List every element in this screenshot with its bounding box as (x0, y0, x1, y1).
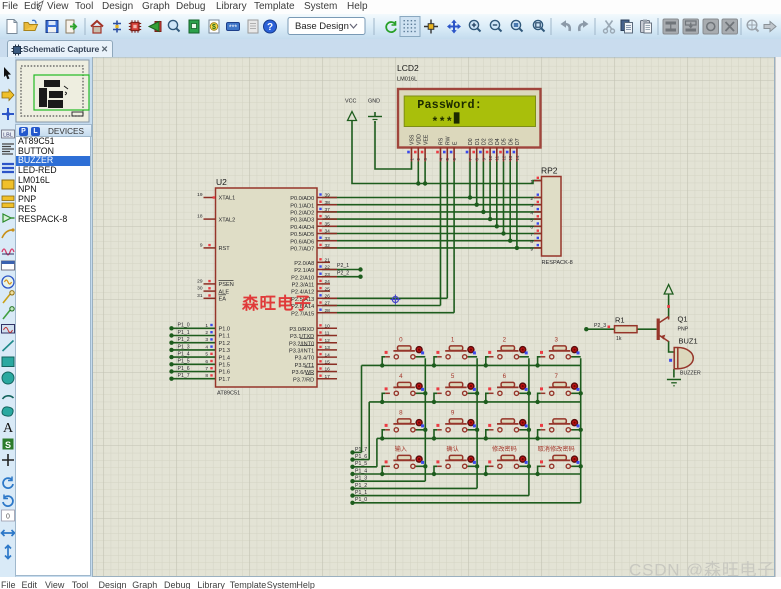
svg-text:GND: GND (368, 99, 380, 105)
svg-text:P0.2/AD2: P0.2/AD2 (290, 211, 314, 217)
svg-text:P3.0/RXD: P3.0/RXD (289, 327, 314, 333)
svg-text:Q1: Q1 (678, 315, 688, 324)
svg-text:A: A (3, 421, 14, 436)
svg-text:1k: 1k (616, 336, 622, 342)
svg-text:D5: D5 (502, 138, 508, 145)
svg-text:15: 15 (325, 360, 331, 366)
svg-text:7: 7 (205, 366, 208, 372)
svg-text:30: 30 (197, 286, 203, 292)
svg-text:Base Design: Base Design (295, 21, 349, 32)
svg-text:39: 39 (325, 193, 331, 199)
svg-text:P1_0: P1_0 (355, 497, 367, 503)
svg-text:P1_3: P1_3 (355, 476, 367, 482)
svg-text:LM016L: LM016L (397, 77, 417, 83)
svg-text:3: 3 (205, 337, 208, 343)
svg-text:3: 3 (554, 337, 558, 344)
svg-text:14: 14 (515, 155, 520, 160)
svg-text:4: 4 (205, 344, 208, 350)
svg-text:RW: RW (446, 136, 452, 145)
svg-text:E: E (452, 141, 458, 145)
svg-text:P0.3/AD3: P0.3/AD3 (290, 218, 314, 224)
svg-text:D0: D0 (468, 138, 474, 145)
svg-text:BUZZER: BUZZER (680, 371, 701, 377)
svg-text:10: 10 (488, 155, 493, 160)
svg-text:P1.2: P1.2 (219, 341, 231, 347)
svg-text:VDD: VDD (417, 134, 423, 145)
svg-text:VEE: VEE (423, 134, 429, 145)
svg-text:取消修改密码: 取消修改密码 (538, 445, 575, 453)
svg-text:12: 12 (325, 338, 331, 344)
svg-text:23: 23 (325, 272, 331, 278)
svg-text:P1_2: P1_2 (178, 337, 190, 343)
svg-text:PNP: PNP (678, 327, 689, 333)
svg-text:22: 22 (325, 265, 331, 271)
svg-text:18: 18 (197, 214, 203, 220)
svg-text:36: 36 (325, 214, 331, 220)
svg-text:EA: EA (219, 297, 227, 303)
svg-text:PSEN: PSEN (219, 282, 234, 288)
svg-text:26: 26 (325, 294, 331, 300)
svg-text:8: 8 (205, 373, 208, 379)
svg-text:9: 9 (451, 410, 455, 417)
svg-text:P2_1: P2_1 (337, 263, 349, 269)
svg-text:1: 1 (451, 337, 455, 344)
svg-text:P1.5: P1.5 (219, 363, 231, 369)
svg-text:28: 28 (325, 308, 331, 314)
svg-text:P0.0/AD0: P0.0/AD0 (290, 196, 314, 202)
svg-text:25: 25 (325, 286, 331, 292)
svg-text:5: 5 (530, 218, 533, 224)
svg-text:6: 6 (503, 373, 507, 380)
svg-text:P1.1: P1.1 (219, 334, 231, 340)
svg-text:P0.4/AD4: P0.4/AD4 (290, 225, 314, 231)
svg-text:P1_6: P1_6 (178, 366, 190, 372)
svg-text:2: 2 (530, 196, 533, 202)
svg-text:8: 8 (530, 239, 533, 245)
svg-text:D1: D1 (475, 138, 481, 145)
svg-text:P3.3/INT1: P3.3/INT1 (289, 349, 314, 355)
svg-text:11: 11 (325, 331, 330, 337)
svg-text:LBL: LBL (3, 133, 13, 139)
svg-text:D2: D2 (482, 138, 488, 145)
svg-text:31: 31 (197, 293, 203, 299)
svg-text:D6: D6 (508, 138, 514, 145)
svg-text:R1: R1 (615, 316, 625, 325)
svg-text:P3.4/T0: P3.4/T0 (295, 356, 315, 362)
svg-text:P1_7: P1_7 (355, 447, 367, 453)
svg-text:4: 4 (530, 210, 533, 216)
svg-text:35: 35 (325, 222, 331, 228)
svg-text:13: 13 (325, 345, 331, 351)
svg-text:P1_3: P1_3 (178, 344, 190, 350)
svg-text:32: 32 (325, 243, 331, 249)
svg-text:12: 12 (501, 155, 506, 160)
svg-text:D3: D3 (488, 138, 494, 145)
svg-text:24: 24 (325, 279, 331, 285)
svg-text:***: *** (431, 116, 453, 130)
svg-text:P2_2: P2_2 (337, 271, 349, 277)
svg-text:7: 7 (530, 232, 533, 238)
svg-text:P0.7/AD7: P0.7/AD7 (290, 247, 314, 253)
svg-text:P1_5: P1_5 (178, 359, 190, 365)
svg-text:LCD2: LCD2 (397, 63, 419, 73)
svg-text:7: 7 (554, 373, 558, 380)
svg-text:33: 33 (325, 236, 331, 242)
svg-text:9: 9 (200, 242, 203, 248)
svg-text:VSS: VSS (410, 134, 416, 145)
svg-text:5: 5 (205, 352, 208, 358)
svg-text:S: S (5, 440, 11, 450)
svg-text:P1_0: P1_0 (178, 323, 190, 329)
svg-text:P1_6: P1_6 (355, 454, 367, 460)
svg-text:3: 3 (530, 203, 533, 209)
svg-text:10: 10 (325, 324, 331, 330)
svg-text:P1_1: P1_1 (355, 490, 367, 496)
svg-text:2: 2 (205, 330, 208, 336)
svg-text:***: *** (229, 24, 237, 31)
svg-text:6: 6 (530, 225, 533, 231)
svg-text:2: 2 (503, 337, 507, 344)
svg-text:5: 5 (451, 373, 455, 380)
svg-text:P0.1/AD1: P0.1/AD1 (290, 203, 314, 209)
svg-text:9: 9 (530, 246, 533, 252)
svg-text:RESPACK-8: RESPACK-8 (542, 260, 573, 266)
svg-text:森旺电子: 森旺电子 (242, 293, 312, 313)
svg-text:AT89C51: AT89C51 (217, 391, 240, 397)
svg-text:P2.1/A9: P2.1/A9 (294, 268, 314, 274)
svg-text:0: 0 (6, 514, 10, 521)
svg-text:1: 1 (205, 323, 208, 329)
svg-text:P1.6: P1.6 (219, 370, 231, 376)
svg-text:P1.4: P1.4 (219, 355, 231, 361)
svg-text:P1_4: P1_4 (178, 352, 190, 358)
svg-text:P2_3: P2_3 (594, 323, 606, 329)
svg-text:P1.3: P1.3 (219, 348, 231, 354)
svg-text:D4: D4 (495, 138, 501, 145)
svg-text:34: 34 (325, 229, 331, 235)
svg-text:P3.6/WR: P3.6/WR (292, 370, 314, 376)
svg-text:37: 37 (325, 207, 331, 213)
svg-text:P3.1/TXD: P3.1/TXD (290, 334, 314, 340)
svg-text:PassWord:: PassWord: (417, 98, 482, 112)
svg-text:4: 4 (399, 373, 403, 380)
svg-text:8: 8 (399, 410, 403, 417)
svg-text:P0.6/AD6: P0.6/AD6 (290, 239, 314, 245)
svg-text:38: 38 (325, 200, 331, 206)
svg-text:ALE: ALE (219, 289, 230, 295)
svg-text:P1.7: P1.7 (219, 377, 231, 383)
svg-text:确认: 确认 (446, 445, 458, 453)
svg-text:CSDN @森旺电子: CSDN @森旺电子 (629, 561, 775, 578)
svg-text:P1_7: P1_7 (178, 373, 190, 379)
svg-text:27: 27 (325, 301, 331, 307)
svg-text:P2.3/A11: P2.3/A11 (292, 283, 315, 289)
svg-text:16: 16 (325, 367, 331, 373)
svg-text:P3.7/RD: P3.7/RD (293, 377, 314, 383)
svg-text:D7: D7 (515, 138, 521, 145)
svg-text:P1.0: P1.0 (219, 327, 231, 333)
svg-text:$: $ (212, 24, 216, 31)
svg-text:13: 13 (508, 155, 513, 160)
svg-text:14: 14 (325, 352, 331, 358)
svg-text:P3.5/T1: P3.5/T1 (295, 363, 315, 369)
svg-text:P0.5/AD5: P0.5/AD5 (290, 232, 314, 238)
svg-text:0: 0 (399, 337, 403, 344)
svg-text:11: 11 (495, 155, 500, 160)
svg-text:19: 19 (197, 192, 203, 198)
svg-text:RS: RS (439, 137, 445, 145)
svg-text:1: 1 (530, 179, 533, 185)
svg-text:P1_1: P1_1 (178, 330, 190, 336)
svg-text:P2.0/A8: P2.0/A8 (294, 261, 314, 267)
svg-text:?: ? (267, 22, 273, 33)
svg-text:RP2: RP2 (541, 166, 558, 176)
svg-text:P1_4: P1_4 (355, 468, 367, 474)
svg-text:P1_2: P1_2 (355, 483, 367, 489)
svg-text:P1_5: P1_5 (355, 461, 367, 467)
svg-text:XTAL1: XTAL1 (219, 196, 236, 202)
svg-text:XTAL2: XTAL2 (219, 217, 236, 223)
svg-text:P3.2/INT0: P3.2/INT0 (289, 341, 314, 347)
svg-text:P2.2/A10: P2.2/A10 (291, 275, 314, 281)
svg-text:BUZ1: BUZ1 (679, 337, 698, 346)
svg-text:RST: RST (219, 246, 231, 252)
svg-text:VCC: VCC (345, 99, 356, 105)
svg-text:17: 17 (325, 374, 331, 380)
svg-text:U2: U2 (216, 177, 227, 187)
svg-text:6: 6 (205, 359, 208, 365)
svg-text:修改密码: 修改密码 (492, 445, 517, 453)
svg-text:输入: 输入 (395, 445, 407, 453)
svg-text:21: 21 (325, 258, 331, 264)
svg-text:29: 29 (197, 278, 203, 284)
